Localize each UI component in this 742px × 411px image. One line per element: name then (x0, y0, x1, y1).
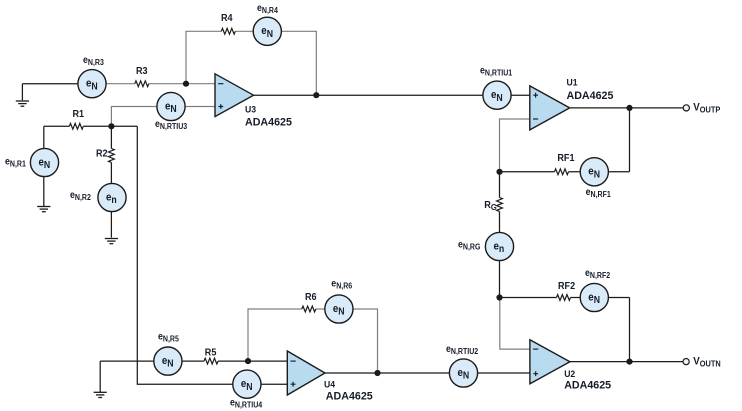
svg-text:R2: R2 (96, 148, 108, 160)
svg-text:U1: U1 (567, 77, 578, 88)
svg-text:ADA4625: ADA4625 (564, 379, 611, 391)
svg-text:eN: eN (458, 367, 470, 380)
svg-text:R4: R4 (221, 13, 233, 25)
svg-text:ADA4625: ADA4625 (326, 390, 373, 402)
svg-text:R5: R5 (205, 347, 217, 359)
svg-text:RF2: RF2 (558, 280, 575, 292)
svg-text:en: en (106, 192, 117, 205)
svg-text:eN: eN (588, 166, 600, 179)
svg-text:en: en (494, 241, 505, 254)
svg-text:R6: R6 (305, 292, 317, 304)
svg-text:eN: eN (165, 101, 177, 114)
svg-text:U4: U4 (324, 379, 336, 390)
svg-text:R3: R3 (136, 66, 148, 78)
svg-text:eN: eN (261, 26, 273, 39)
svg-text:RF1: RF1 (557, 153, 575, 165)
svg-text:eN: eN (86, 78, 98, 91)
svg-text:eN: eN (333, 303, 345, 316)
svg-text:eN: eN (491, 90, 503, 103)
svg-text:ADA4625: ADA4625 (245, 116, 292, 128)
svg-text:U3: U3 (245, 104, 256, 115)
svg-text:eN: eN (162, 355, 174, 368)
svg-text:ADA4625: ADA4625 (567, 90, 614, 102)
svg-text:eN: eN (241, 379, 253, 392)
svg-text:R1: R1 (73, 108, 85, 120)
svg-text:eN: eN (588, 292, 600, 305)
svg-text:eN: eN (39, 157, 51, 170)
svg-text:U2: U2 (564, 369, 575, 380)
